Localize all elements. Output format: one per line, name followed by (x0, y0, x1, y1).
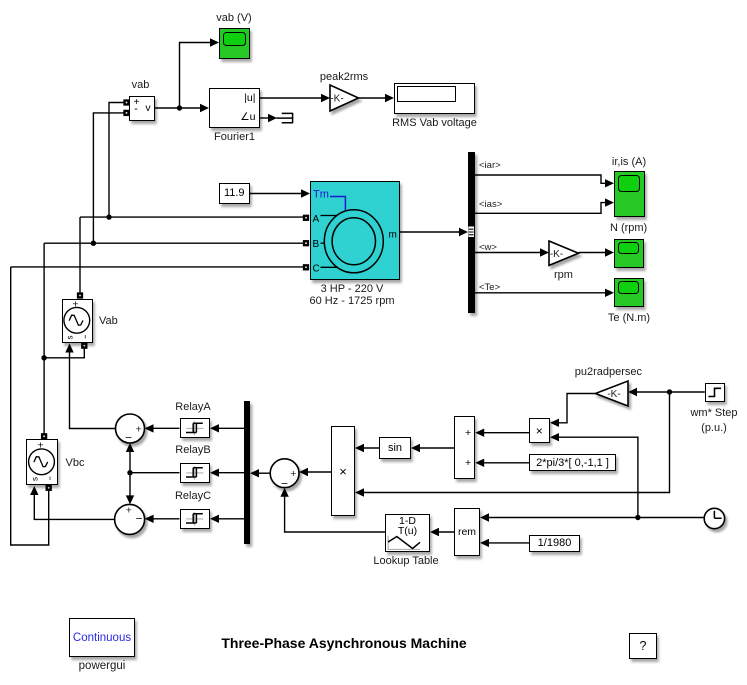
svg-text:−: − (281, 476, 288, 490)
wire step output to pu2radpersec and product (362, 392, 705, 493)
label Vbc (66, 457, 85, 469)
wire bus iar to scope ir,is port1 (475, 175, 608, 183)
wire sum3 output to demux (257, 472, 270, 474)
junction node step output split (667, 389, 672, 394)
machine Tm blue lead (330, 197, 345, 211)
junction node phase A / plus tap (106, 214, 111, 219)
sum block sum3 (270, 459, 299, 490)
relay block RelayB (180, 463, 210, 483)
machine port letter A with lead (313, 214, 337, 225)
junction node phase B / minus tap (91, 241, 96, 246)
label machine line1 (321, 283, 384, 295)
svg-text:+: + (126, 504, 132, 516)
Vab source icon (64, 299, 90, 340)
svg-text:+: + (136, 423, 142, 435)
wire bus ias to scope ir,is port2 (475, 203, 608, 214)
wire bus Te to scope Te (475, 292, 608, 294)
label RelayA (175, 401, 210, 413)
step block wm* Step (705, 383, 725, 402)
svg-text:−: − (135, 512, 142, 526)
help block ? (629, 633, 657, 659)
wire Fourier1 |u| to peak2rms gain (260, 97, 323, 99)
scope ir,is (A) (614, 171, 645, 217)
gain pu2radpersec (595, 381, 628, 406)
port square Vab source plus top (78, 293, 83, 298)
arrowheads (200, 104, 209, 112)
machine port letter C with lead (313, 263, 338, 274)
wire rem output to lookup table (437, 531, 454, 533)
wire product output to sum3 (306, 471, 331, 473)
gain rpm (549, 241, 579, 265)
wire pu2radpersec output to small product (557, 394, 595, 423)
label Te (N.m) (608, 312, 650, 324)
wire demux to RelayB (217, 472, 244, 474)
port square vab measure plus (124, 100, 129, 105)
Vbc source icon (29, 440, 55, 482)
label peak2rms (320, 71, 368, 83)
label powergui (79, 660, 126, 672)
sin block (379, 437, 411, 459)
port square machine A (304, 215, 309, 220)
constant 2*pi/3 (529, 454, 616, 471)
wire RelayB output to junction (130, 451, 180, 498)
product block small (529, 418, 550, 443)
wire vab v-output to Fourier1 (155, 107, 202, 109)
wire rpm gain to scope N (579, 252, 608, 254)
label vab (132, 79, 150, 91)
lookup table block (385, 514, 430, 552)
controlled voltage source Vab (62, 299, 94, 344)
junction node Vab minus on phase B drop (41, 355, 46, 360)
relay RelayC icon (186, 512, 203, 526)
wire peak2rms to RMS display (359, 97, 388, 99)
wire phase A net (80, 103, 304, 294)
label Fourier1 (214, 131, 255, 143)
label Te signal (479, 282, 500, 294)
port square Vbc source minus bottom (46, 485, 51, 490)
wire clock output to rem and small product (487, 437, 704, 517)
wire sum2 output to Vbc s-input (34, 493, 114, 519)
voltage measurement vab (129, 96, 156, 121)
label Lookup Table (373, 555, 438, 567)
product block tall (331, 426, 355, 516)
machine icon circles (324, 210, 383, 273)
lookup table graph (388, 536, 420, 550)
wire constant 2pi/3 to add block (482, 462, 529, 464)
port square vab measure minus (124, 110, 129, 115)
relay RelayB icon (186, 466, 203, 480)
label Vab (99, 315, 118, 327)
junction node on v-output wire (177, 105, 182, 110)
powergui block (69, 618, 135, 657)
wire Fourier1 angle-u to terminator (260, 117, 270, 119)
label (p.u.) (701, 422, 727, 434)
port square Vab source minus bottom (82, 343, 87, 348)
label RelayB (175, 444, 210, 456)
wire lookup table output to sum3 bottom (285, 495, 385, 532)
add block (454, 416, 475, 479)
port square Vbc source plus top (42, 434, 47, 439)
wire Vab minus terminal to node (44, 348, 84, 358)
label wm* Step (690, 407, 737, 419)
wire RelayC output to sum2 (152, 518, 180, 520)
port square machine C (304, 265, 309, 270)
relay RelayA icon (186, 422, 203, 436)
scope vab (V) (219, 28, 250, 59)
label iar (479, 160, 501, 172)
wire constant 1/1980 to rem (487, 542, 529, 544)
scope N (rpm) (614, 239, 644, 268)
label pu2radpersec (575, 366, 642, 378)
junction node RelayB split (127, 470, 132, 475)
port square machine B (304, 241, 309, 246)
step icon wm* Step (708, 388, 721, 396)
label RMS Vab voltage (392, 117, 477, 129)
svg-text:+: + (290, 468, 296, 480)
wire machine m to bus selector (400, 231, 461, 233)
sum block sum2 (115, 504, 145, 534)
wire demux to RelayC (217, 518, 244, 520)
wire bus w to rpm gain (475, 252, 543, 254)
machine port letter B with lead (313, 239, 325, 250)
wire sin output to product (362, 447, 379, 449)
bus selector bar (468, 152, 475, 313)
wire small product output to add block (482, 432, 529, 434)
label w (479, 242, 497, 254)
svg-text:−: − (125, 431, 132, 445)
label machine line2 (310, 295, 395, 307)
bus selector input marker (468, 227, 474, 238)
demux bar (244, 401, 250, 544)
svg-text:-K-: -K- (330, 94, 343, 105)
label ias (479, 199, 502, 211)
label ir,is (A) (612, 156, 646, 168)
terminator on Fourier1 angle output (276, 113, 293, 123)
gain peak2rms (330, 85, 359, 111)
controlled voltage source Vbc (26, 439, 58, 485)
wire phase C net (11, 267, 304, 545)
scope Te (N.m) (614, 278, 644, 307)
wire phase B net (44, 113, 303, 434)
sum block sum1 (116, 414, 145, 445)
asynchronous machine block (310, 181, 400, 280)
wire RelayA output to sum1 (152, 427, 180, 429)
constant 1/1980 (529, 535, 580, 552)
relay block RelayA (180, 418, 210, 438)
svg-text:-K-: -K- (607, 389, 620, 400)
label RelayC (175, 490, 211, 502)
label N (rpm) (610, 222, 647, 234)
block Fourier1 (209, 88, 260, 128)
label scope vab (V) (216, 12, 251, 24)
wire add block output to sin (418, 447, 454, 449)
rem block (454, 508, 480, 556)
constant 11.9 (219, 183, 250, 204)
junction node clock output split (635, 515, 640, 520)
relay block RelayC (180, 509, 210, 529)
display RMS Vab voltage (394, 83, 475, 114)
wire demux to RelayA (217, 427, 244, 429)
label rpm (554, 269, 573, 281)
wire constant 11.9 to machine Tm (250, 193, 304, 195)
wire branch up to scope vab(V) (180, 43, 213, 109)
svg-text:-K-: -K- (550, 249, 563, 260)
title (221, 637, 466, 649)
clock block (704, 508, 724, 528)
wire sum1 output to Vab s-input (70, 351, 116, 429)
